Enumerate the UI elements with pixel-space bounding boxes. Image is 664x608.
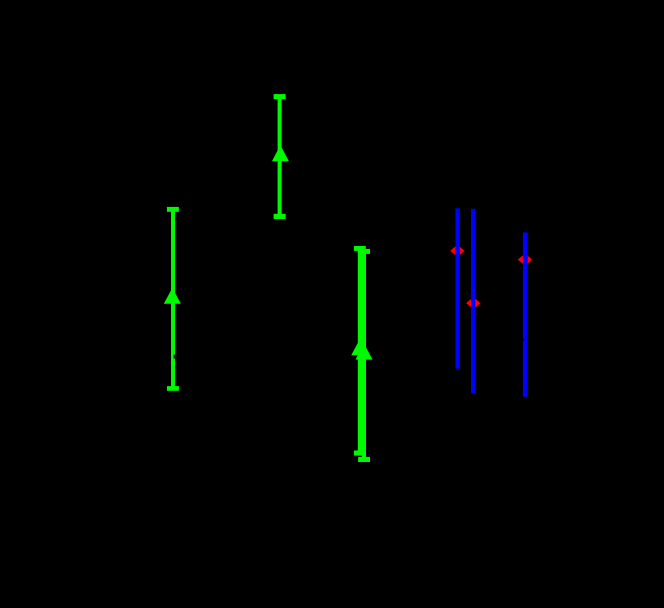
blue line 1 (x=457.6) <box>455 208 459 368</box>
green error bar 3A (x=359.8) <box>351 246 368 456</box>
blue line 3 (x=525.3) <box>523 232 528 396</box>
notch right on blue line 3 <box>526 338 529 341</box>
red diamond marker D2 <box>466 297 480 309</box>
green error bar 2 (x=279.6) <box>272 94 289 219</box>
green error bar 1 (x=173) <box>164 207 181 391</box>
red diamond marker D1 <box>450 245 464 257</box>
green error bar 3B (x=364.0) <box>355 249 372 462</box>
red diamond marker D3 <box>518 253 532 265</box>
notch on green bar 1 <box>174 355 176 359</box>
blue line 2 (x=473.15) <box>471 209 475 393</box>
notch left on blue line 3 <box>522 338 525 341</box>
